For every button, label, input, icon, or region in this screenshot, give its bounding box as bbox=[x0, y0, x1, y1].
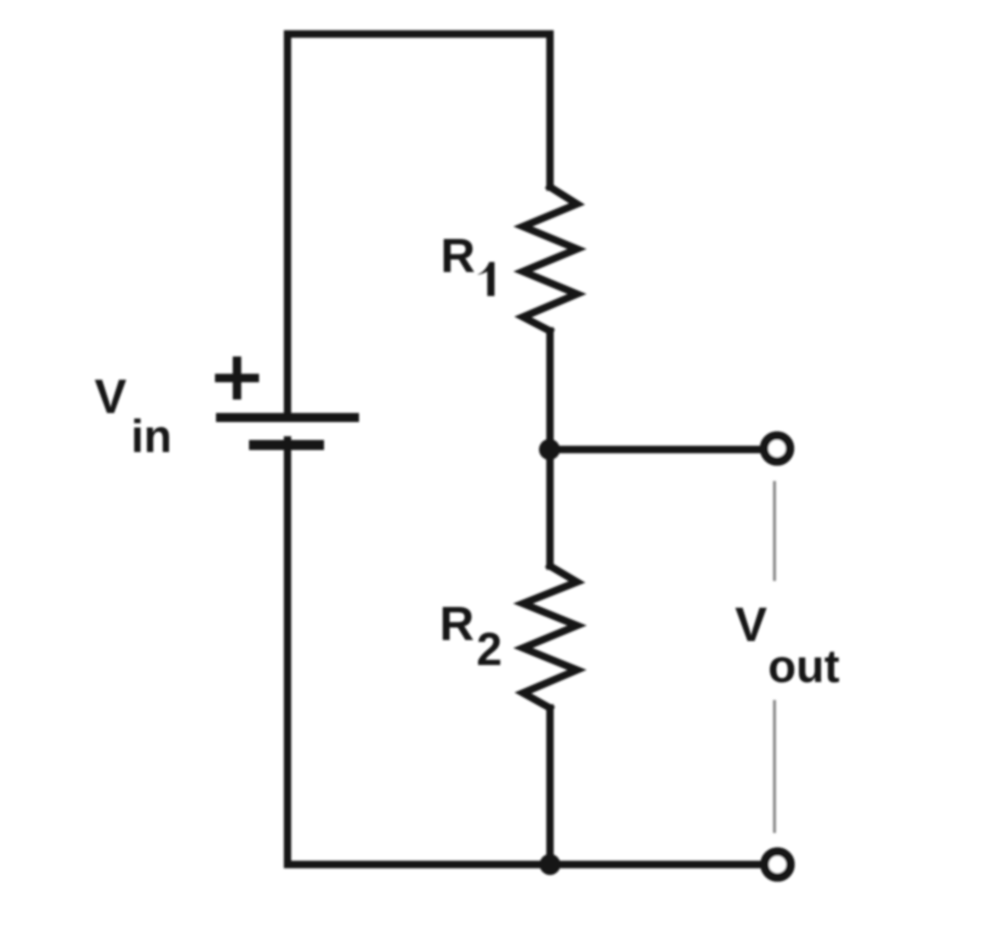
wire bottom loop (battery minus terminal down, across bottom to output terminal) bbox=[288, 440, 758, 865]
label R1 bbox=[441, 230, 495, 296]
svg-text:V: V bbox=[735, 599, 767, 652]
node A junction dot bbox=[539, 439, 560, 460]
svg-text:in: in bbox=[131, 410, 172, 462]
svg-text:out: out bbox=[768, 640, 840, 692]
wire output tap horizontal (node A to top terminal) bbox=[553, 446, 757, 453]
terminal top output circle bbox=[764, 436, 790, 462]
resistor R2 bbox=[523, 566, 577, 708]
wire right lower (R2 to bottom node) bbox=[546, 708, 553, 861]
battery V1 negative plate (short) bbox=[249, 440, 324, 450]
lead line gray lower bbox=[773, 700, 776, 833]
battery plus sign bbox=[215, 357, 259, 400]
node B bottom junction dot bbox=[540, 854, 561, 875]
battery V1 positive plate (long) bbox=[216, 413, 359, 422]
wire top loop (battery plus terminal up, across top, down to R1) bbox=[288, 34, 551, 414]
svg-text:R: R bbox=[441, 230, 476, 283]
resistor R1 bbox=[523, 187, 577, 331]
svg-text:2: 2 bbox=[477, 623, 503, 675]
label Vout bbox=[735, 599, 840, 692]
terminal bottom output circle bbox=[765, 852, 791, 878]
wire middle (R1 to R2 through node A) bbox=[546, 331, 553, 566]
label R2 bbox=[440, 598, 503, 675]
label Vin bbox=[95, 371, 172, 462]
lead line gray upper bbox=[773, 481, 776, 581]
svg-text:V: V bbox=[95, 371, 127, 424]
svg-text:R: R bbox=[440, 598, 475, 651]
